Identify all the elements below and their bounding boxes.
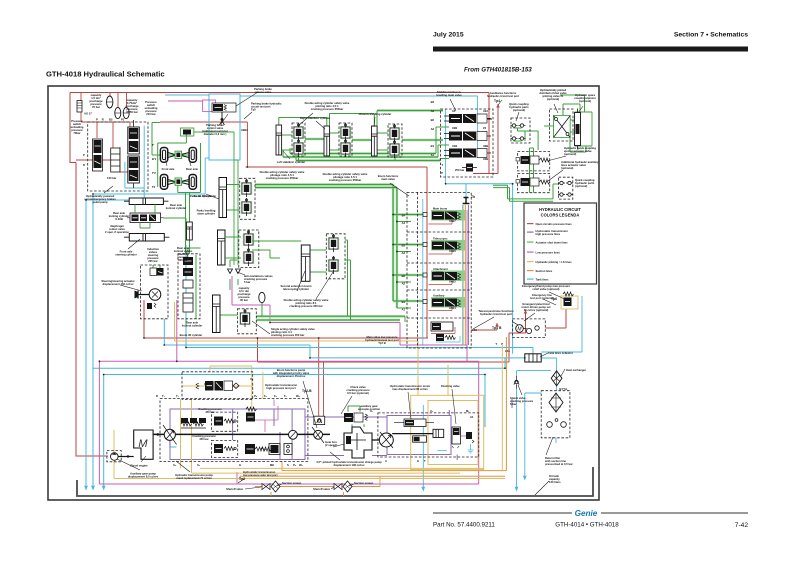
- transmission pump circle: [164, 429, 175, 440]
- wire green rear axle valve: [186, 193, 201, 326]
- svg-text:Rear axle: Rear axle: [186, 167, 198, 171]
- wire green stab bundle: [283, 127, 449, 161]
- leader emerg1: [549, 292, 567, 300]
- dashed box boom main valve: [407, 192, 471, 348]
- leader rear axle: [189, 159, 191, 166]
- red arrow tp1: [495, 323, 499, 327]
- telescope cylinder 1: [213, 295, 221, 333]
- svg-text:W₅: W₅: [296, 394, 301, 398]
- svg-text:Hydrostatic transmission motor: Hydrostatic transmission motormax displa…: [390, 384, 431, 391]
- dashed box aux module 1: [518, 152, 550, 171]
- leader single safety: [252, 321, 270, 334]
- svg-text:Front axle: Front axle: [162, 167, 175, 171]
- dashed box pump relief upper: [212, 412, 238, 431]
- tele single safety valve: [239, 309, 250, 327]
- wire magenta tp3 stub: [236, 472, 238, 484]
- wire magenta charge gallery: [252, 399, 278, 432]
- wire red boom valve feed bus: [144, 300, 566, 362]
- return filter: [549, 393, 563, 412]
- svg-text:Tp2-B: Tp2-B: [302, 389, 312, 393]
- svg-text:A2: A2: [402, 282, 406, 286]
- dashed box transmission pump: [160, 399, 308, 462]
- footer rule right: [601, 513, 748, 514]
- svg-text:Hydrostatic transmissionlow pr: Hydrostatic transmissionlow pressure aut…: [243, 470, 278, 477]
- pressure switch PS1: [77, 101, 82, 113]
- svg-text:B4: B4: [402, 214, 406, 218]
- flushing spool: [452, 427, 461, 444]
- svg-text:Front axlesteering cylinder: Front axlesteering cylinder: [115, 250, 137, 257]
- junction dots: [85, 199, 87, 201]
- svg-text:GTH-4014 • GTH-4018: GTH-4014 • GTH-4018: [555, 522, 619, 529]
- svg-text:Auxiliary: Auxiliary: [433, 294, 445, 298]
- dashed box steering: [141, 265, 169, 319]
- wire red charge check valve: [319, 338, 324, 416]
- leader boom pump: [303, 381, 317, 428]
- svg-text:130 bar: 130 bar: [107, 176, 116, 180]
- svg-text:X7: X7: [204, 382, 208, 386]
- svg-text:Heat exchanger: Heat exchanger: [566, 368, 586, 372]
- schematic frame: [48, 86, 599, 500]
- rear axle lockout cylinder: [129, 198, 163, 205]
- rear axle lockout valves: [183, 257, 193, 265]
- svg-text:A1: A1: [470, 415, 474, 419]
- flushing magenta stub: [461, 435, 470, 437]
- oil tank boundary line: [77, 467, 593, 496]
- brake valve stack 1: [93, 139, 103, 171]
- svg-text:Left stabilizer cylinder: Left stabilizer cylinder: [277, 160, 305, 164]
- dashed box tele single safety: [238, 309, 257, 334]
- boom cylinder: [219, 178, 227, 218]
- svg-text:July 2015: July 2015: [433, 32, 464, 39]
- leader left stab: [283, 151, 290, 159]
- svg-text:Boom functionsmain valve: Boom functionsmain valve: [378, 174, 399, 181]
- park valve core: [183, 130, 191, 135]
- svg-text:LS1: LS1: [505, 349, 510, 353]
- aux gear pump: [111, 453, 119, 461]
- x7 pilot valve: [205, 381, 214, 391]
- svg-text:Boom lift cylinder: Boom lift cylinder: [180, 333, 203, 337]
- green backing tele runs: [256, 316, 405, 320]
- stab safety valves 1: [293, 123, 304, 141]
- svg-text:A3: A3: [402, 251, 406, 255]
- svg-text:capacity0,75dm³prechargepressu: capacity0,75dm³prechargepressure35/50 ba…: [126, 98, 140, 114]
- transmission motor: [379, 433, 393, 447]
- svg-text:Telescopes/crane functionshydr: Telescopes/crane functionshydraulic circ…: [478, 309, 514, 316]
- leader front axle: [165, 157, 167, 166]
- leader screen2: [349, 484, 354, 486]
- svg-text:X3A: X3A: [487, 117, 492, 121]
- leader boom lift: [206, 194, 219, 199]
- svg-text:Suction screen: Suction screen: [354, 481, 374, 485]
- svg-text:Open circuits pressure lines: Open circuits pressure lines: [536, 222, 573, 226]
- wire green piloted distributor: [544, 95, 586, 152]
- leader dist: [554, 104, 558, 113]
- pump bottom valve 1: [245, 444, 255, 454]
- wire cyan boom valve galleries: [423, 199, 463, 345]
- svg-text:250 bar: 250 bar: [455, 168, 464, 172]
- svg-text:M₁: M₁: [466, 409, 470, 413]
- check valve 6bar: [514, 380, 519, 384]
- charge check valve: [314, 416, 325, 424]
- wire red main supply box: [70, 93, 489, 457]
- steering valve pair: [150, 268, 157, 276]
- svg-text:Additional hydraulic auxiliary: Additional hydraulic auxiliarylines actu…: [561, 160, 599, 170]
- svg-text:X₄: X₄: [173, 463, 177, 467]
- leader oil tank: [535, 481, 549, 495]
- svg-text:Actuator shut down lines: Actuator shut down lines: [536, 241, 569, 245]
- svg-text:Cracking pressure450 bar: Cracking pressure450 bar: [198, 407, 222, 414]
- dashed box stab main valve: [441, 109, 494, 177]
- legend box: [524, 203, 597, 284]
- svg-text:7-42: 7-42: [735, 522, 749, 529]
- svg-text:Main valve low pressurehydraul: Main valve low pressurehydraulic/manual …: [365, 335, 399, 345]
- shutoff valve 1: [262, 484, 270, 490]
- green backing bundle: [283, 154, 440, 161]
- dashed box pump relief lower: [212, 440, 238, 457]
- boom pump circle: [289, 430, 298, 439]
- svg-text:Boom functions pumpwith integr: Boom functions pumpwith integrated prior…: [272, 368, 310, 378]
- magenta pilot box: [203, 100, 216, 112]
- dashed box x7 pilot: [182, 372, 253, 400]
- svg-text:T₂: T₂: [176, 394, 180, 398]
- svg-text:P: P: [83, 153, 85, 157]
- shutoff valve 2: [334, 484, 342, 490]
- dashed box stab safety 1: [292, 123, 305, 156]
- svg-text:B′1: B′1: [152, 157, 157, 161]
- pump servo valve: [246, 413, 255, 422]
- svg-text:Hydraulic sparecouplings/pisto: Hydraulic sparecouplings/piston(optional…: [574, 93, 596, 103]
- steering hand pump: [149, 289, 161, 301]
- leader stab main: [450, 99, 456, 111]
- svg-text:B2: B2: [402, 274, 406, 278]
- svg-text:Flushing valve: Flushing valve: [441, 384, 460, 388]
- svg-text:Genie: Genie: [575, 509, 598, 518]
- differential 2: [175, 178, 182, 185]
- leader pedal pump: [104, 186, 113, 193]
- svg-text:X2B2: X2B2: [241, 128, 248, 132]
- leader aux pump: [117, 459, 140, 470]
- svg-text:B3: B3: [431, 100, 435, 104]
- spare coupling piston: [575, 113, 581, 146]
- leader chargepump: [330, 452, 340, 460]
- svg-text:A1: A1: [431, 153, 435, 157]
- motor lower valve: [413, 436, 427, 442]
- svg-text:Rear axlelocking cylinderX-22B: Rear axlelocking cylinderX-22B: [109, 211, 129, 221]
- svg-text:Hydraulic piloting = LS lines: Hydraulic piloting = LS lines: [536, 260, 573, 264]
- accumulator AC1: [107, 96, 113, 108]
- red arrow emergency port: [524, 310, 528, 314]
- stab safety valves 3: [389, 124, 400, 142]
- svg-text:Auxiliaries functionshydraulic: Auxiliaries functionshydraulic circuit t…: [487, 91, 519, 98]
- svg-text:P₆: P₆: [293, 463, 297, 467]
- wire green stab rod lines: [279, 111, 443, 141]
- tele safety valves: [328, 234, 339, 252]
- front steering cylinder: [129, 234, 164, 242]
- svg-text:Check valvecracking pressure0,: Check valvecracking pressure0,5 bar (opt…: [346, 385, 370, 395]
- red arrow tp4: [496, 104, 500, 108]
- svg-text:T: T: [495, 342, 497, 346]
- wire green lockout links: [135, 205, 186, 229]
- wire cyan collector to heat exchanger: [541, 358, 556, 391]
- green park valve box: [180, 128, 193, 136]
- legend suction swatch: [527, 270, 534, 271]
- svg-text:S: S: [287, 463, 289, 467]
- svg-text:Rear axlelockout cylinder: Rear axlelockout cylinder: [182, 321, 203, 328]
- svg-text:Stabilizers/chassislevelling m: Stabilizers/chassislevelling main valve: [436, 90, 462, 97]
- svg-text:Cracking pressure450 bar: Cracking pressure450 bar: [192, 434, 216, 441]
- svg-text:Quick couplinghydraulic parts(: Quick couplinghydraulic parts(optional): [509, 102, 529, 112]
- svg-text:Return filterwith suction line: Return filterwith suction linepressurize…: [544, 456, 573, 466]
- leader spare: [578, 106, 583, 113]
- svg-text:Double acting cylinder safety: Double acting cylinder safety valvepilot…: [284, 298, 329, 308]
- svg-text:Parking brake hydrauliccircuit: Parking brake hydrauliccircuit test port…: [251, 102, 282, 112]
- steering wheel: [138, 291, 149, 299]
- wire green telescope links: [220, 240, 405, 322]
- main drive shaft: [153, 433, 330, 435]
- boom valve section 4: [423, 297, 465, 308]
- parking brake valve PB: [212, 103, 236, 112]
- quick couplings lower: [558, 181, 565, 184]
- wire tan flushing inner: [428, 401, 478, 465]
- boom valve Th port: [463, 198, 470, 204]
- pump relief lower: [214, 444, 223, 453]
- svg-text:X3B: X3B: [483, 157, 488, 161]
- svg-text:HYDRAULIC CIRCUIT: HYDRAULIC CIRCUIT: [539, 207, 581, 212]
- wire green gearbox valve: [348, 406, 364, 427]
- levelling slave cylinder small: [187, 222, 193, 240]
- leader shutoff2: [331, 487, 334, 489]
- charge relief zigzag row: [181, 422, 192, 426]
- stab safety valves 2: [340, 123, 351, 141]
- pedal master block: [128, 127, 140, 154]
- svg-text:Pressureswitchunloadingpressur: Pressureswitchunloadingpressure210 bar: [145, 100, 158, 116]
- dashed box stab safety 2: [339, 123, 352, 156]
- leader gearbox: [333, 444, 344, 447]
- legend actuator swatch: [527, 242, 534, 243]
- tank collector: [525, 354, 541, 362]
- svg-text:3/4”SL: 3/4”SL: [559, 387, 568, 391]
- parks safety valves: [243, 230, 254, 248]
- svg-text:F₇: F₇: [284, 394, 287, 398]
- svg-text:Auxiliary gear pumpdisplacemen: Auxiliary gear pumpdisplacement 8,5 cc/r…: [128, 472, 159, 479]
- leader ejector: [547, 156, 566, 161]
- suction screen 1: [271, 481, 280, 492]
- wire red boom inlet bits: [431, 327, 455, 334]
- green piston frame: [575, 112, 593, 146]
- quick couplings upper: [511, 124, 518, 127]
- dashed box hand pump: [513, 319, 546, 338]
- svg-text:Quick couplinghydraulic parts(: Quick couplinghydraulic parts(optional): [575, 178, 595, 188]
- motor control piston: [433, 429, 444, 437]
- wire purple transmission lines: [233, 205, 512, 460]
- wire green park to anticav drop: [194, 132, 238, 265]
- svg-text:A4: A4: [402, 221, 406, 225]
- svg-text:Tp1 B: Tp1 B: [492, 326, 502, 330]
- stab valve spool row 2: [444, 132, 491, 141]
- boom valve inlet: [431, 322, 453, 331]
- green backing boom runs: [255, 185, 423, 309]
- stabilizer cylinder right: [324, 126, 330, 156]
- accumulator AC2: [115, 107, 121, 118]
- stab valve relief: [466, 164, 473, 172]
- green backing stab rods: [305, 111, 443, 141]
- differential 1: [175, 151, 182, 158]
- pump bottom valve 2: [269, 444, 280, 455]
- wire green aux function lines: [493, 184, 559, 201]
- leader screen1: [277, 484, 282, 486]
- pump relief upper: [214, 417, 223, 426]
- leader heat: [561, 369, 565, 376]
- wire cyan motor drain: [422, 405, 424, 489]
- svg-text:R: R: [83, 163, 85, 167]
- svg-text:B1: B1: [431, 144, 435, 148]
- wire red tp1 stub: [471, 323, 497, 330]
- svg-text:Low pressure lines: Low pressure lines: [536, 251, 561, 255]
- wire orange boom valve gallery: [465, 205, 467, 345]
- wire red accumulator drops: [76, 93, 133, 173]
- svg-text:X4B4: X4B4: [449, 306, 456, 310]
- svg-text:Parks levellingslave cylinder: Parks levellingslave cylinder: [197, 209, 216, 216]
- leader emerg2: [543, 299, 556, 305]
- header rule bar: [433, 47, 748, 52]
- pump bottom valve 3: [284, 444, 292, 455]
- dashed box return filter: [541, 391, 570, 438]
- svg-text:Emergency/electricalmotor driv: Emergency/electricalmotor driven pump se…: [521, 302, 550, 312]
- wire cyan park valve drain: [93, 95, 209, 200]
- leader parking release: [236, 92, 258, 106]
- leader second ext: [297, 271, 305, 291]
- wire green quick couplings top: [514, 128, 539, 150]
- legend tank swatch: [527, 279, 534, 280]
- svg-text:PR: PR: [96, 118, 104, 122]
- leader qc upper: [516, 112, 519, 121]
- wire cyan boom valve T line: [446, 184, 513, 354]
- dashed box boom safety: [240, 178, 255, 219]
- x-crossing pilot: [554, 116, 571, 138]
- boom safety valves: [241, 179, 252, 197]
- svg-text:Hydraulically poweredservo/eme: Hydraulically poweredservo/emergency bra…: [84, 194, 116, 204]
- svg-text:P: P: [441, 171, 443, 175]
- svg-text:T: T: [424, 459, 426, 463]
- svg-text:Section 7 • Schematics: Section 7 • Schematics: [674, 32, 748, 39]
- svg-text:Steering/steering actuatordisp: Steering/steering actuatordisplacement 1…: [101, 279, 134, 286]
- leader boom main: [390, 183, 409, 196]
- dashed dividers boom valve: [407, 192, 471, 348]
- flushing cyan drain: [437, 444, 473, 453]
- svg-text:Pressureswitchunloadingpressur: Pressureswitchunloadingpressure70bar: [71, 119, 84, 135]
- svg-text:G: G: [239, 463, 241, 467]
- wire cyan park to stab tank gallery: [240, 96, 478, 184]
- axle shafts: [168, 153, 189, 185]
- dashed box parks safety: [239, 230, 259, 268]
- svg-text:X2A: X2A: [483, 109, 488, 113]
- svg-text:T′2: T′2: [152, 171, 156, 175]
- dashed box qc upper: [511, 118, 530, 143]
- svg-text:Oil tankcapacity130 liters: Oil tankcapacity130 liters: [549, 474, 561, 484]
- wire cyan brake block tank: [86, 126, 144, 200]
- svg-text:T2: T2: [152, 185, 156, 189]
- svg-text:B2: B2: [431, 118, 435, 122]
- svg-text:From GTH401815B-153: From GTH401815B-153: [464, 67, 532, 74]
- svg-text:Gear box(2 speed): Gear box(2 speed): [325, 440, 337, 447]
- boom valve section 1: [423, 210, 465, 221]
- svg-text:COLORS LEGENDA: COLORS LEGENDA: [541, 213, 580, 218]
- leader motor lbl: [408, 392, 411, 419]
- svg-text:4,5*: piloted hydrostatic tran: 4,5*: piloted hydrostatic transmission c…: [316, 460, 382, 467]
- svg-text:Tp6: Tp6: [551, 297, 557, 301]
- svg-text:Right stabilizer cylinder: Right stabilizer cylinder: [300, 116, 330, 120]
- leader right stab: [316, 121, 325, 129]
- svg-text:MH: MH: [270, 463, 274, 467]
- legend transmission swatch: [527, 232, 534, 233]
- leader check6: [518, 385, 522, 395]
- svg-text:B2: B2: [109, 118, 113, 122]
- rear axle lockout valve block: [130, 213, 161, 223]
- svg-text:X4B6: X4B6: [449, 249, 456, 253]
- svg-text:Second extension boomtelescopi: Second extension boomtelescoping cylinde…: [280, 284, 312, 291]
- svg-text:X4B5: X4B5: [449, 280, 456, 284]
- steering relief: [147, 303, 152, 309]
- wire cyan long runs: [93, 245, 533, 427]
- svg-text:X₃: X₃: [197, 463, 201, 467]
- svg-text:Tp4: Tp4: [494, 99, 500, 103]
- accumulator AC3: [123, 107, 129, 118]
- leader front steer: [128, 239, 140, 249]
- wire green parks links: [225, 237, 301, 258]
- dashed box piloted distributor: [550, 109, 574, 141]
- stab valve spool row 1: [444, 114, 491, 123]
- wire red boom section stubs: [429, 220, 453, 311]
- svg-text:A1: A1: [402, 308, 406, 312]
- wire tan x7 pilots: [182, 205, 464, 412]
- legend low pressure swatch: [527, 252, 534, 253]
- wire green steer valves: [150, 265, 163, 275]
- svg-text:X4B7: X4B7: [449, 219, 456, 223]
- svg-text:P: P: [501, 342, 503, 346]
- telescope cylinder 2: [301, 245, 310, 281]
- leader check05: [341, 396, 352, 414]
- wire magenta boom valve gallery: [466, 210, 468, 345]
- flushing relief: [466, 432, 472, 439]
- dashed box pedal pump: [88, 122, 148, 191]
- leader tele safety: [316, 272, 333, 299]
- wire tan emergency valve: [561, 296, 578, 309]
- svg-text:B1: B1: [402, 300, 406, 304]
- svg-text:anti-cavitations valvescrackin: anti-cavitations valvescracking pressure…: [244, 274, 273, 284]
- svg-text:Suction screen: Suction screen: [282, 481, 302, 485]
- aux module 2 valve: [521, 178, 530, 186]
- wire cyan hand pump drain: [541, 296, 582, 352]
- leader aux test: [498, 100, 502, 105]
- svg-text:AG 17: AG 17: [84, 112, 92, 116]
- leader collector: [540, 353, 548, 357]
- svg-text:T′: T′: [152, 143, 155, 147]
- motor shaft link: [392, 433, 433, 435]
- svg-text:X₂: X₂: [250, 377, 254, 381]
- green x-box: [554, 116, 571, 138]
- pilot accumulator: [259, 292, 265, 302]
- svg-text:A3: A3: [431, 109, 435, 113]
- aux pump circle: [314, 430, 323, 439]
- svg-text:Double acting cylinder safety: Double acting cylinder safety valvepilot…: [323, 172, 368, 182]
- svg-text:Hydraulically piloteddistribut: Hydraulically piloteddistributor/shut va…: [539, 88, 567, 101]
- leader filter: [546, 437, 553, 455]
- wire green module drops: [530, 148, 534, 193]
- svg-text:Tank lines collector: Tank lines collector: [548, 351, 573, 355]
- svg-text:Rear axlelockout cylinder: Rear axlelockout cylinder: [166, 203, 187, 210]
- wire cyan boom inlet bits: [436, 336, 460, 342]
- wire cyan tank verticals left: [86, 200, 104, 486]
